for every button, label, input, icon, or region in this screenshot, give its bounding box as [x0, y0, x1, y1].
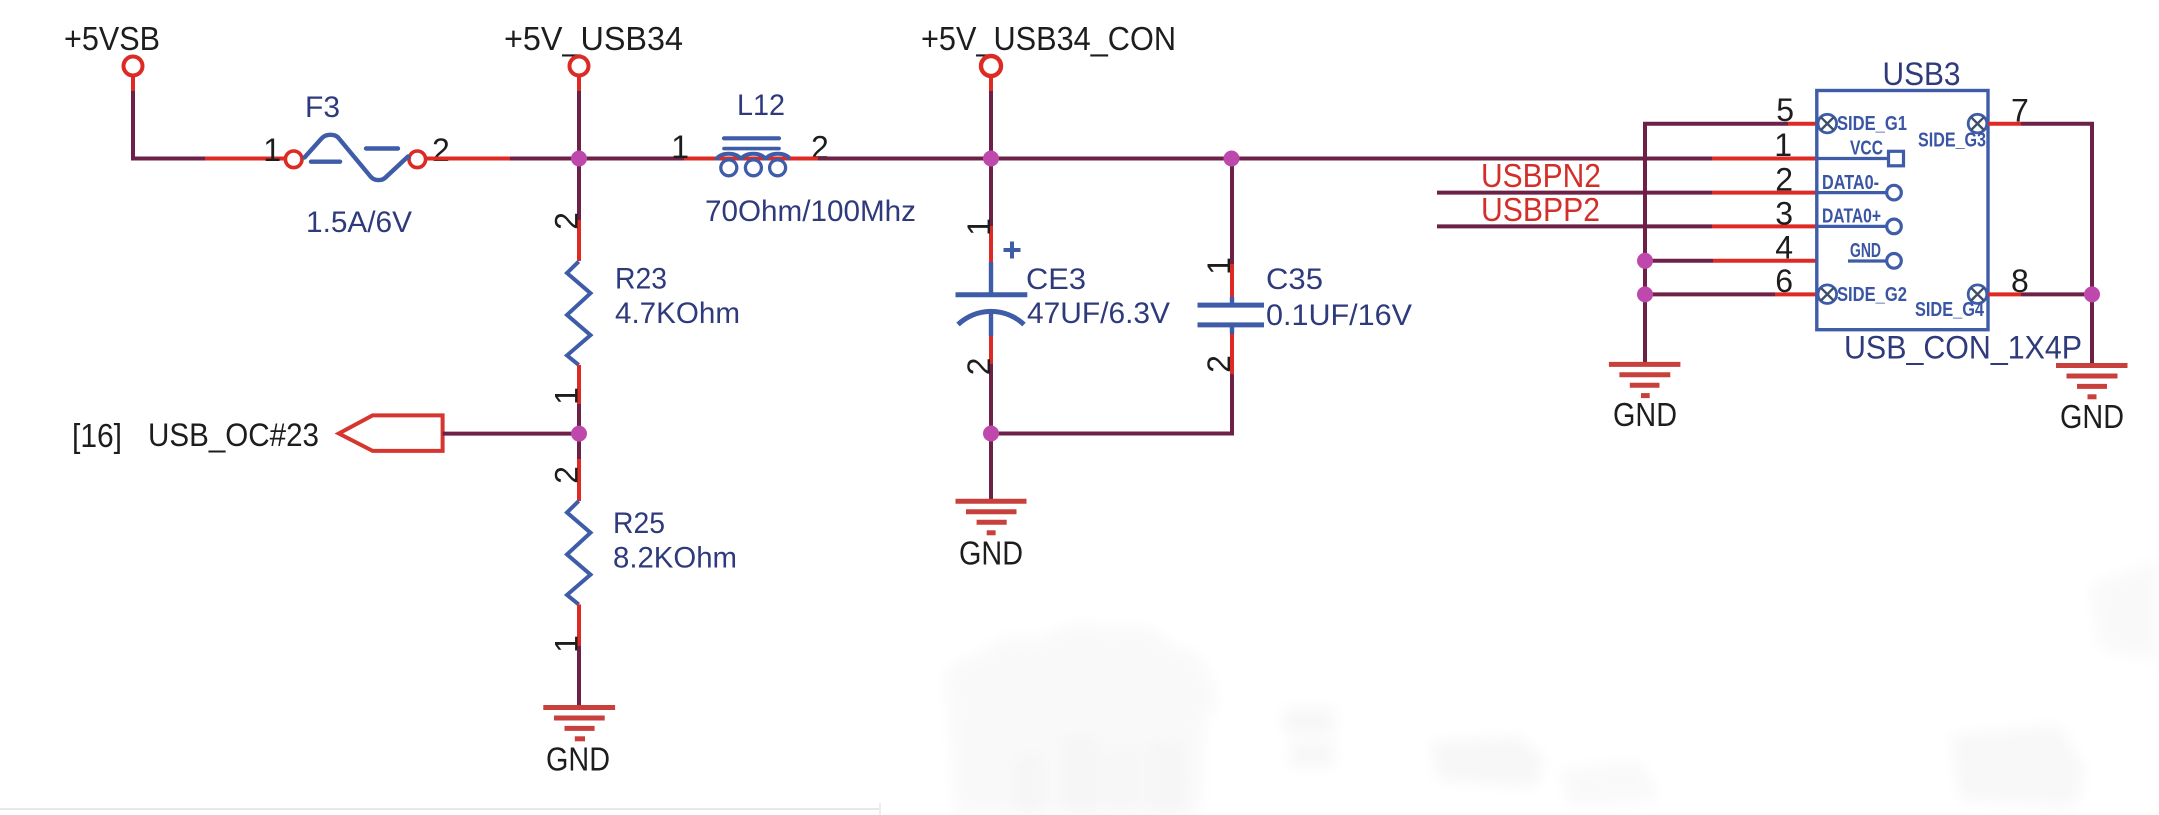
svg-text:USB_OC#23: USB_OC#23	[148, 417, 319, 453]
svg-text:L12: L12	[737, 89, 785, 122]
wire left bus to USB3 pin5	[1645, 124, 1817, 363]
pin 1 VCC	[1774, 127, 1903, 166]
ground right bus	[2056, 366, 2128, 436]
wire bus to USB3 pin6	[1645, 292, 1817, 296]
svg-text:SIDE_G3: SIDE_G3	[1918, 130, 1986, 152]
node junction at C35 top	[1224, 151, 1240, 167]
svg-text:2: 2	[549, 466, 585, 484]
svg-text:GND: GND	[1850, 240, 1881, 262]
pin 4 GND	[1775, 229, 1901, 268]
capacitor C35	[1198, 159, 1413, 375]
wire USBPN2 to USB3 pin2	[1437, 191, 1817, 195]
node junction CE3 bottom	[983, 426, 999, 442]
svg-text:1: 1	[961, 218, 997, 236]
wire +5VSB to F3 pin1	[133, 91, 284, 159]
svg-text:GND: GND	[2060, 398, 2124, 435]
svg-text:+5VSB: +5VSB	[64, 20, 160, 57]
svg-text:DATA0+: DATA0+	[1822, 206, 1881, 228]
pin 7 SIDE_G3	[1918, 93, 2029, 152]
svg-text:3: 3	[1775, 196, 1793, 232]
ground left bus	[1609, 364, 1681, 433]
svg-text:SIDE_G2: SIDE_G2	[1837, 284, 1907, 306]
svg-text:DATA0-: DATA0-	[1822, 172, 1879, 194]
svg-text:USBPN2: USBPN2	[1481, 157, 1601, 194]
svg-text:2: 2	[961, 358, 997, 376]
svg-text:1: 1	[549, 635, 585, 653]
ground CE3	[956, 434, 1027, 572]
svg-text:1: 1	[671, 129, 689, 165]
node junction R23/R25/OC	[571, 426, 587, 442]
pin 5 SIDE_G1	[1776, 92, 1907, 135]
svg-text:GND: GND	[546, 741, 610, 778]
wire OC arrow to junction	[443, 432, 579, 436]
wire USB3 pin8 to right bus	[1988, 292, 2092, 296]
svg-text:1: 1	[1774, 127, 1792, 163]
svg-text:5: 5	[1776, 92, 1794, 128]
node junction pin6 bus	[1637, 286, 1653, 302]
power +5V_USB34_CON	[921, 20, 1176, 159]
resistor R23	[549, 159, 741, 434]
svg-text:C35: C35	[1266, 263, 1323, 296]
node junction pin8 right bus	[2084, 286, 2100, 302]
wire F3 pin2 to junction	[426, 157, 684, 161]
svg-text:R23: R23	[615, 263, 667, 296]
node junction pin4 bus	[1637, 253, 1653, 269]
pin 6 SIDE_G2	[1775, 263, 1907, 306]
svg-text:2: 2	[432, 132, 450, 168]
resistor R25	[549, 434, 738, 707]
svg-text:6: 6	[1775, 263, 1793, 299]
pin 2 DATA0-	[1775, 162, 1901, 200]
wire USBPP2 to USB3 pin3	[1437, 224, 1817, 228]
fuse F3	[263, 91, 450, 239]
wire bus to USB3 pin4	[1645, 259, 1817, 263]
wire CE3 bottom to C35 bottom	[991, 374, 1232, 434]
svg-text:SIDE_G1: SIDE_G1	[1837, 113, 1907, 135]
svg-text:47UF/6.3V: 47UF/6.3V	[1027, 297, 1170, 330]
node junction at +5V_USB34	[571, 151, 587, 167]
svg-text:1.5A/6V: 1.5A/6V	[306, 206, 412, 239]
svg-text:2: 2	[1775, 162, 1793, 198]
svg-text:0.1UF/16V: 0.1UF/16V	[1266, 299, 1412, 332]
svg-text:1: 1	[1201, 257, 1237, 275]
svg-text:USB3: USB3	[1883, 56, 1961, 92]
pin 8 SIDE_G4	[1915, 263, 2029, 321]
svg-text:F3: F3	[305, 91, 340, 124]
inductor L12	[671, 89, 916, 228]
connector USB3 box	[1817, 56, 2082, 366]
svg-text:4.7KOhm: 4.7KOhm	[615, 297, 740, 330]
svg-text:R25: R25	[613, 507, 665, 540]
svg-text:+5V_USB34: +5V_USB34	[504, 20, 683, 57]
svg-text:USBPP2: USBPP2	[1481, 191, 1600, 228]
svg-text:2: 2	[549, 212, 585, 230]
svg-text:8.2KOhm: 8.2KOhm	[613, 542, 737, 575]
svg-text:GND: GND	[1613, 396, 1677, 433]
svg-text:1: 1	[263, 132, 281, 168]
svg-text:+5V_USB34_CON: +5V_USB34_CON	[921, 20, 1176, 57]
capacitor CE3	[956, 159, 1171, 434]
svg-text:4: 4	[1775, 229, 1793, 265]
ground R25	[543, 708, 615, 778]
svg-text:[16]: [16]	[72, 417, 122, 454]
power +5VSB	[64, 20, 160, 91]
svg-text:2: 2	[1201, 355, 1237, 373]
svg-text:70Ohm/100Mhz: 70Ohm/100Mhz	[705, 195, 916, 228]
svg-text:VCC: VCC	[1850, 138, 1883, 160]
wire L12 pin2 to USB3 pin1	[790, 157, 1817, 161]
svg-text:1: 1	[549, 387, 585, 405]
offpage connector USB_OC#23	[72, 415, 443, 454]
svg-text:SIDE_G4: SIDE_G4	[1915, 299, 1985, 321]
node junction at CE3 top	[983, 151, 999, 167]
faint page edge bottom	[0, 803, 880, 815]
wire USB3 pin7 to right bus	[1988, 124, 2092, 364]
power +5V_USB34	[504, 20, 683, 159]
svg-text:USB_CON_1X4P: USB_CON_1X4P	[1844, 330, 2082, 366]
faint watermark blobs	[945, 560, 2159, 815]
pin 3 DATA0+	[1775, 196, 1901, 234]
svg-text:CE3: CE3	[1026, 263, 1086, 296]
wire rail to L12 pin1	[684, 157, 718, 161]
svg-text:GND: GND	[959, 535, 1023, 572]
